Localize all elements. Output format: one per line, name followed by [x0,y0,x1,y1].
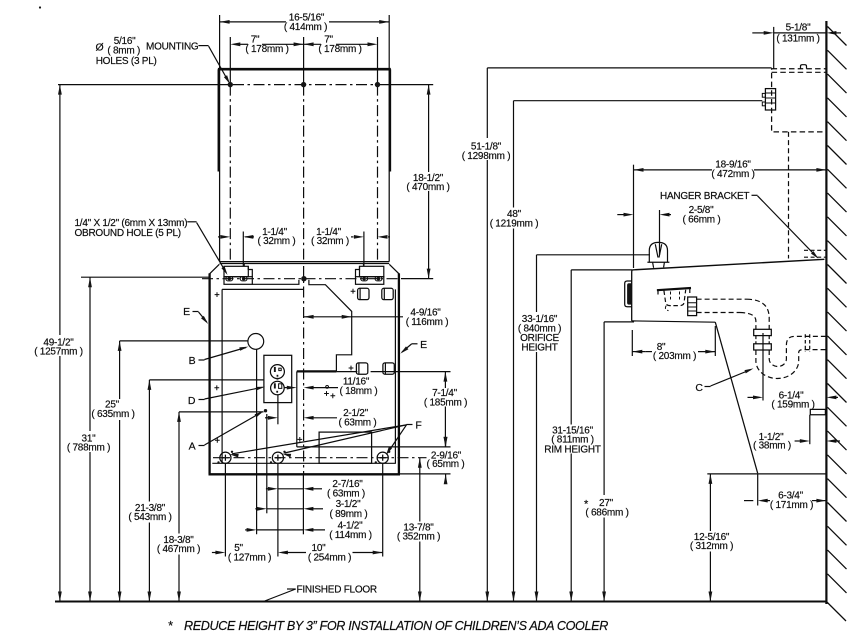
basin strainer cup dashed [664,290,686,306]
svg-text:( 178mm ): ( 178mm ) [318,44,361,55]
cooler body left edge [208,273,210,474]
interior stepped panel outline [252,280,299,284]
left bracket obround holes [226,277,233,281]
dimension 3-1/2 (89mm) [255,508,258,510]
svg-text:Ø: Ø [96,42,104,54]
leader mounting holes [198,45,208,47]
svg-text:( 89mm ): ( 89mm ) [330,509,368,520]
svg-text:HEIGHT: HEIGHT [521,342,557,353]
extension line bracket centerline to 18-1/2 dim [401,278,433,280]
svg-text:A: A [189,441,196,453]
dimension 21-3/8 (543mm) [149,379,264,381]
extension line orifice height [537,254,651,256]
wall hatching [828,27,847,46]
svg-text:( 159mm ): ( 159mm ) [771,400,814,411]
interior duct lower outline [297,370,337,372]
dimension 1-1/2 (38mm) [809,415,811,444]
basin strainer flange [657,288,691,290]
svg-text:5-1/8": 5-1/8" [786,23,812,34]
electrical outlet box [264,355,292,402]
hole B circle [248,334,264,350]
svg-text:( 114mm ): ( 114mm ) [329,530,372,541]
svg-text:( 254mm ): ( 254mm ) [308,552,351,563]
svg-text:( 32mm ): ( 32mm ) [311,236,349,247]
waste stub-out on wall [810,409,825,414]
extension line below cabinet corner [757,474,759,506]
back panel bottom double seam [220,262,390,264]
back panel thick side flanges [219,69,390,171]
svg-text:( 185mm ): ( 185mm ) [424,398,467,409]
dimension 2-5/8 (66mm) [659,210,661,255]
svg-text:HANGER BRACKET: HANGER BRACKET [660,191,749,202]
svg-text:( 686mm ): ( 686mm ) [585,508,628,519]
svg-text:( 352mm ): ( 352mm ) [397,532,440,543]
svg-text:( 312mm ): ( 312mm ) [690,541,733,552]
dimension 4-9/16 (116mm) [304,316,352,318]
front push panel [625,281,632,307]
svg-text:( 178mm ): ( 178mm ) [245,44,288,55]
mounting bolt middle [272,452,283,463]
svg-text:E: E [420,339,427,351]
extension line vertical below circle B [256,349,258,534]
wall line [825,21,827,604]
duplex receptacle lower [271,381,285,395]
dimension 5in (127mm) [212,552,217,554]
receptacle in electrical box [765,89,775,110]
svg-text:MOUNTING: MOUNTING [146,41,199,52]
svg-text:OBROUND HOLE (5 PL): OBROUND HOLE (5 PL) [75,228,181,239]
stray ink dot top-left [39,6,41,8]
extension line rim height [571,269,632,271]
dimension 7-1/4 (185mm) [444,372,446,388]
body bottom edge extension right [400,473,451,475]
cooler bottom front edge [632,321,716,322]
rivet marks [215,292,220,297]
dimension 31 (788mm) [81,276,210,278]
dimension 31-15/16 (811mm) rim height [570,270,572,425]
dashed drain pipe horizontal [697,298,747,300]
extension lines below bolts [225,463,382,556]
svg-text:( 63mm ): ( 63mm ) [339,418,377,429]
dimension 18-9/16 (472mm) [633,165,635,268]
svg-text:( 1298mm ): ( 1298mm ) [462,151,511,162]
svg-text:( 38mm ): ( 38mm ) [753,441,791,452]
svg-text:( 127mm ): ( 127mm ) [228,552,271,563]
P-trap dashed U-bend [756,350,827,379]
dimension 7in (178mm) right [304,43,321,45]
dimension 8in (203mm) [631,330,633,356]
svg-text:( 470mm ): ( 470mm ) [406,182,449,193]
extension line vertical below hole A [266,414,268,513]
dashed drop line from electrical box to hanger bracket [788,132,790,259]
cooler body right edge [398,273,400,474]
hanger bracket left plate [224,266,248,276]
finished floor line [55,601,826,603]
svg-text:E: E [183,306,190,318]
dimension 27 (686mm) with asterisk [603,322,605,495]
svg-text:F: F [415,420,421,432]
mounting bolt right [377,452,388,463]
hole A dot [264,409,267,412]
svg-text:( 131mm ): ( 131mm ) [776,33,819,44]
mounting bolt left [220,452,231,463]
svg-text:REDUCE HEIGHT BY 3” FOR INSTAL: REDUCE HEIGHT BY 3” FOR INSTALLATION OF … [184,619,608,633]
svg-text:( 788mm ): ( 788mm ) [67,443,110,454]
mounting hole dots (3 PL) [228,82,233,87]
dimension 2-7/16 (63mm) [266,488,270,490]
cooler body inner top seam [222,288,303,290]
dimension 16-5/16 (414mm) overall width [220,15,390,69]
seam at duct bottom extending right [336,371,357,373]
leader obround hole [187,221,196,223]
electrical box top bump [801,65,807,69]
dimension 5-1/8 (131mm) [773,27,775,69]
interior horizontal seam at drain level [297,446,451,448]
extension line below centerline [302,474,304,534]
trap outlet union ticks [805,334,809,352]
dimension 7in (178mm) left [236,43,248,45]
bubbler [649,242,667,262]
back panel (front view) outline [220,69,390,261]
extension line top of unit to 51-1/8 [487,67,771,69]
dimension 51-1/8 (1298mm) [486,68,488,138]
dimension 6-3/4 (171mm) [758,499,768,503]
duplex receptacle upper [270,365,284,379]
svg-text:( 635mm ): ( 635mm ) [91,409,134,420]
svg-text:D: D [188,395,196,407]
extension line below outlet center [277,395,279,425]
dimension 4-1/2 (114mm) [245,529,248,531]
knockout squares lower pair [356,363,367,374]
dimension 11/16 (18mm) [285,387,293,389]
cooler body bottom edge [209,473,401,475]
hidden hanger bracket dashes at wall [804,250,826,257]
svg-text:( 32mm ): ( 32mm ) [258,236,296,247]
svg-text:( 18mm ): ( 18mm ) [340,386,378,397]
mounting-hole horizontal centerline [58,84,230,86]
svg-text:( 414mm ): ( 414mm ) [284,22,327,33]
svg-text:( 8mm ): ( 8mm ) [107,46,140,57]
dimension 49-1/2 (1257mm) [59,85,61,335]
mounting hole centerline left [229,37,231,85]
back panel thick top edge [218,68,391,71]
dimension 13-7/8 (352mm) [419,458,421,522]
svg-text:( 467mm ): ( 467mm ) [157,544,200,555]
cooler front face [631,270,634,321]
receptacle center screw [277,378,279,380]
dimension 25 (635mm) [120,340,248,342]
right bracket obround holes [361,277,368,281]
bolt hole centerline [213,457,427,459]
dimension 6-1/4 (159mm) [748,396,755,398]
center keyhole dot [301,276,306,281]
dimension 12-5/16 (312mm) [709,474,711,531]
louver recess rectangle [319,432,372,463]
cooler body chamfered top corners [210,264,399,274]
dimension 10in (254mm) [278,551,288,555]
svg-text:( 63mm ): ( 63mm ) [327,489,365,500]
svg-text:C: C [695,382,703,394]
hanger bracket right plate [360,266,384,276]
svg-text:B: B [189,355,196,367]
cooler bottom back edge [707,473,826,475]
trap inlet unions [754,329,772,335]
svg-text:( 543mm ): ( 543mm ) [128,512,171,523]
drain tailpiece union [688,297,697,316]
svg-text:( 66mm ): ( 66mm ) [683,215,721,226]
cooler body inner side seams [222,289,395,463]
svg-text:HOLES (3 PL): HOLES (3 PL) [96,56,157,67]
dimension 1-1/4 (32mm) left [242,232,244,267]
svg-text:( 65mm ): ( 65mm ) [427,459,465,470]
dashed drain elbow [747,299,769,329]
extension line 27 to front bottom [604,321,634,323]
svg-text:( 116mm ): ( 116mm ) [406,317,449,328]
cooler top surface side view [632,259,824,270]
svg-text:( 203mm ): ( 203mm ) [653,351,696,362]
dimension 18-1/2 (470mm) panel height right side [428,85,430,172]
dimension 18-3/8 (467mm) [179,411,264,413]
dimension 2-1/2 (63mm) [265,417,270,419]
dimension 1-1/4 (32mm) right [363,232,365,267]
knockout squares upper pair [358,288,369,299]
extension line 6-1/4 from trap [762,333,764,401]
dimension 2-9/16 (65mm) [445,440,447,447]
svg-text:RIM HEIGHT: RIM HEIGHT [544,444,601,455]
svg-text:( 171mm ): ( 171mm ) [770,500,813,511]
dimension 48 (1219mm) [513,101,515,208]
dimension 33-1/16 (840mm) orifice height [536,255,538,312]
svg-text:FINISHED FLOOR: FINISHED FLOOR [297,585,377,596]
mounting hole centerline middle [303,37,305,85]
cooler body bottom seam [212,462,396,464]
extension line to 48 receptacle [514,100,763,102]
svg-text:( 1257mm ): ( 1257mm ) [34,347,83,358]
cooler slanted underside [715,322,757,473]
bracket row centerline [202,278,401,280]
mounting hole centerline right [377,37,379,85]
dashed electrical box on wall [772,69,827,132]
svg-text:( 1219mm ): ( 1219mm ) [490,218,539,229]
svg-text:( 472mm ): ( 472mm ) [711,169,754,180]
